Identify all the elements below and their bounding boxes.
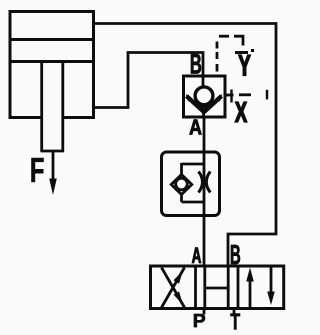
label Y — [239, 55, 251, 75]
piston bottom line — [10, 60, 94, 63]
piston rod right — [61, 62, 64, 152]
pilot check valve body — [184, 76, 226, 117]
seat right flare — [216, 94, 223, 102]
left cell cross arrow 1 head — [174, 271, 183, 284]
wire cylinder bottom port to check valve B — [93, 53, 203, 108]
pilot line Y corner dash — [234, 36, 243, 45]
label A at directional valve — [192, 247, 201, 263]
port B stub inside valve — [202, 76, 205, 88]
pilot line X tick 2 — [266, 90, 268, 100]
right cell down arrow line — [270, 267, 273, 296]
directional valve body — [151, 266, 284, 309]
pilot check valve seat — [187, 96, 222, 112]
right cell up arrow line — [249, 277, 252, 308]
pilot line X tick 1 — [230, 90, 232, 103]
cylinder bottom opening mask — [43, 114, 62, 121]
middle cell left vertical — [203, 266, 206, 309]
label P — [194, 314, 205, 327]
wire cylinder top to right column — [93, 24, 276, 267]
right cell down arrow head — [267, 292, 275, 306]
label B at check valve — [191, 54, 201, 74]
divider 2 — [237, 266, 240, 309]
bypass top horizontal — [182, 163, 204, 166]
right cell up arrow head — [246, 268, 254, 282]
bypass check diamond — [171, 175, 192, 195]
pilot line Y dashed vertical — [216, 42, 219, 72]
bypass top vertical — [180, 163, 183, 175]
piston rod end — [40, 150, 64, 153]
force arrow line — [52, 152, 55, 181]
bypass bottom vertical — [180, 195, 183, 203]
stray dot — [251, 49, 254, 52]
piston top line — [10, 38, 94, 41]
left cell cross arrow 2 line — [162, 268, 185, 308]
pilot line X dash — [239, 93, 251, 96]
divider 1 — [194, 266, 197, 309]
label T — [231, 313, 240, 329]
piston rod left — [40, 62, 43, 152]
Y overbar dash — [235, 51, 248, 54]
cylinder body — [10, 12, 94, 118]
middle cell right vertical — [227, 266, 230, 309]
throttle arc left — [199, 172, 203, 193]
seat apex fill — [197, 105, 212, 115]
port P stub — [203, 309, 206, 315]
label B at directional valve — [231, 245, 240, 264]
pilot line Y dashed horizontal — [219, 35, 229, 38]
force arrow head — [49, 179, 57, 196]
port T stub — [233, 309, 236, 314]
label X — [235, 102, 247, 122]
throttle check valve body — [162, 152, 220, 216]
port A stub inside valve — [202, 109, 205, 118]
throttle arc right — [206, 172, 210, 193]
left cell cross arrow 2 head — [174, 291, 183, 304]
left cell cross arrow 1 line — [162, 268, 185, 308]
pilot check valve ball — [195, 87, 213, 105]
pilot line X stub — [225, 94, 234, 97]
label A at check valve — [189, 119, 201, 134]
label F — [32, 158, 44, 182]
middle cell crossbar — [205, 287, 228, 290]
bypass bottom horizontal — [182, 201, 204, 204]
seat left flare — [186, 94, 193, 102]
bypass check ball — [176, 178, 188, 190]
wire check valve A down to directional valve A — [203, 117, 206, 266]
